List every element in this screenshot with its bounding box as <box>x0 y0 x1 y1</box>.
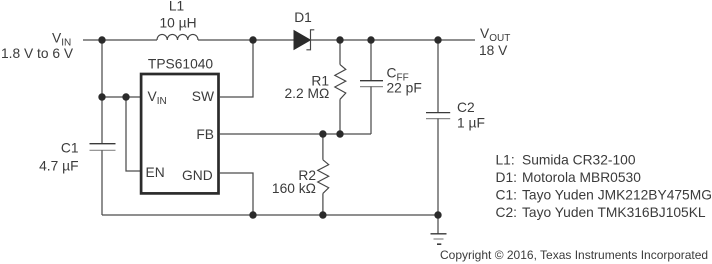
svg-text:C2:: C2: <box>496 205 517 220</box>
svg-text:22 pF: 22 pF <box>387 81 422 96</box>
junction CFF top <box>367 36 374 43</box>
svg-text:C1: C1 <box>61 140 79 155</box>
wire FB pin to feedback node <box>220 133 371 135</box>
wire C1 bottom to ground rail <box>101 150 103 215</box>
op-amp U1 TPS61040 box <box>141 74 218 193</box>
svg-text:18 V: 18 V <box>479 43 508 58</box>
svg-text:L1: L1 <box>169 0 184 14</box>
wire SW pin to switch node <box>220 40 253 97</box>
svg-text:1 µF: 1 µF <box>457 116 485 131</box>
svg-text:2.2 MΩ: 2.2 MΩ <box>284 86 329 101</box>
svg-text:C2: C2 <box>457 100 475 115</box>
svg-text:D1:: D1: <box>496 170 517 185</box>
junction FB R1 <box>336 130 343 137</box>
svg-text:10 µH: 10 µH <box>159 16 196 31</box>
wire inductor to diode anode <box>198 39 295 41</box>
wire EN link vertical <box>126 97 140 171</box>
svg-text:C1:: C1: <box>496 188 517 203</box>
junction GND rail IC <box>249 211 256 218</box>
svg-text:L1:: L1: <box>496 153 515 168</box>
svg-text:FB: FB <box>196 127 214 142</box>
capacitor C2 <box>426 40 450 215</box>
junction C2 top <box>434 36 441 43</box>
wire VIN pin connection <box>102 96 140 98</box>
svg-text:Tayo Yuden TMK316BJ105KL: Tayo Yuden TMK316BJ105KL <box>522 205 706 220</box>
wire VIN vertical rail (x=102) upper <box>101 40 103 144</box>
ground symbol <box>431 215 447 244</box>
svg-text:Sumida CR32-100: Sumida CR32-100 <box>522 153 636 168</box>
svg-text:VOUT: VOUT <box>480 26 510 44</box>
svg-text:Motorola MBR0530: Motorola MBR0530 <box>522 170 641 185</box>
junction FB R2 <box>319 130 326 137</box>
inductor L1 <box>157 34 198 40</box>
svg-text:4.7 µF: 4.7 µF <box>39 159 78 174</box>
junction switch node <box>249 36 256 43</box>
resistor R1 <box>335 40 346 134</box>
wire GND pin to ground rail <box>220 173 253 215</box>
junction GND rail C2 <box>434 211 441 218</box>
junction VIN input <box>98 36 105 43</box>
wire diode cathode to VOUT <box>311 39 476 41</box>
svg-text:1.8 V to 6 V: 1.8 V to 6 V <box>1 46 74 61</box>
svg-text:Tayo Yuden JMK212BY475MG: Tayo Yuden JMK212BY475MG <box>522 188 712 203</box>
junction VIN pin <box>98 93 105 100</box>
junction EN branch <box>122 93 129 100</box>
svg-text:Copyright © 2016, Texas Instru: Copyright © 2016, Texas Instruments Inco… <box>440 248 708 262</box>
resistor R2 <box>318 134 329 215</box>
svg-text:TPS61040: TPS61040 <box>148 57 214 72</box>
junction R1 top <box>336 36 343 43</box>
capacitor C1 <box>90 144 116 151</box>
wire ground rail <box>102 214 438 216</box>
capacitor CFF <box>360 40 383 134</box>
svg-text:EN: EN <box>146 165 165 180</box>
svg-text:160 kΩ: 160 kΩ <box>272 181 316 196</box>
svg-text:GND: GND <box>182 168 213 183</box>
svg-text:SW: SW <box>192 89 214 104</box>
diode D1 (Schottky) <box>294 30 314 50</box>
svg-text:D1: D1 <box>294 10 312 25</box>
wire VIN input to inductor <box>83 39 157 41</box>
junction GND rail R2 <box>319 211 326 218</box>
